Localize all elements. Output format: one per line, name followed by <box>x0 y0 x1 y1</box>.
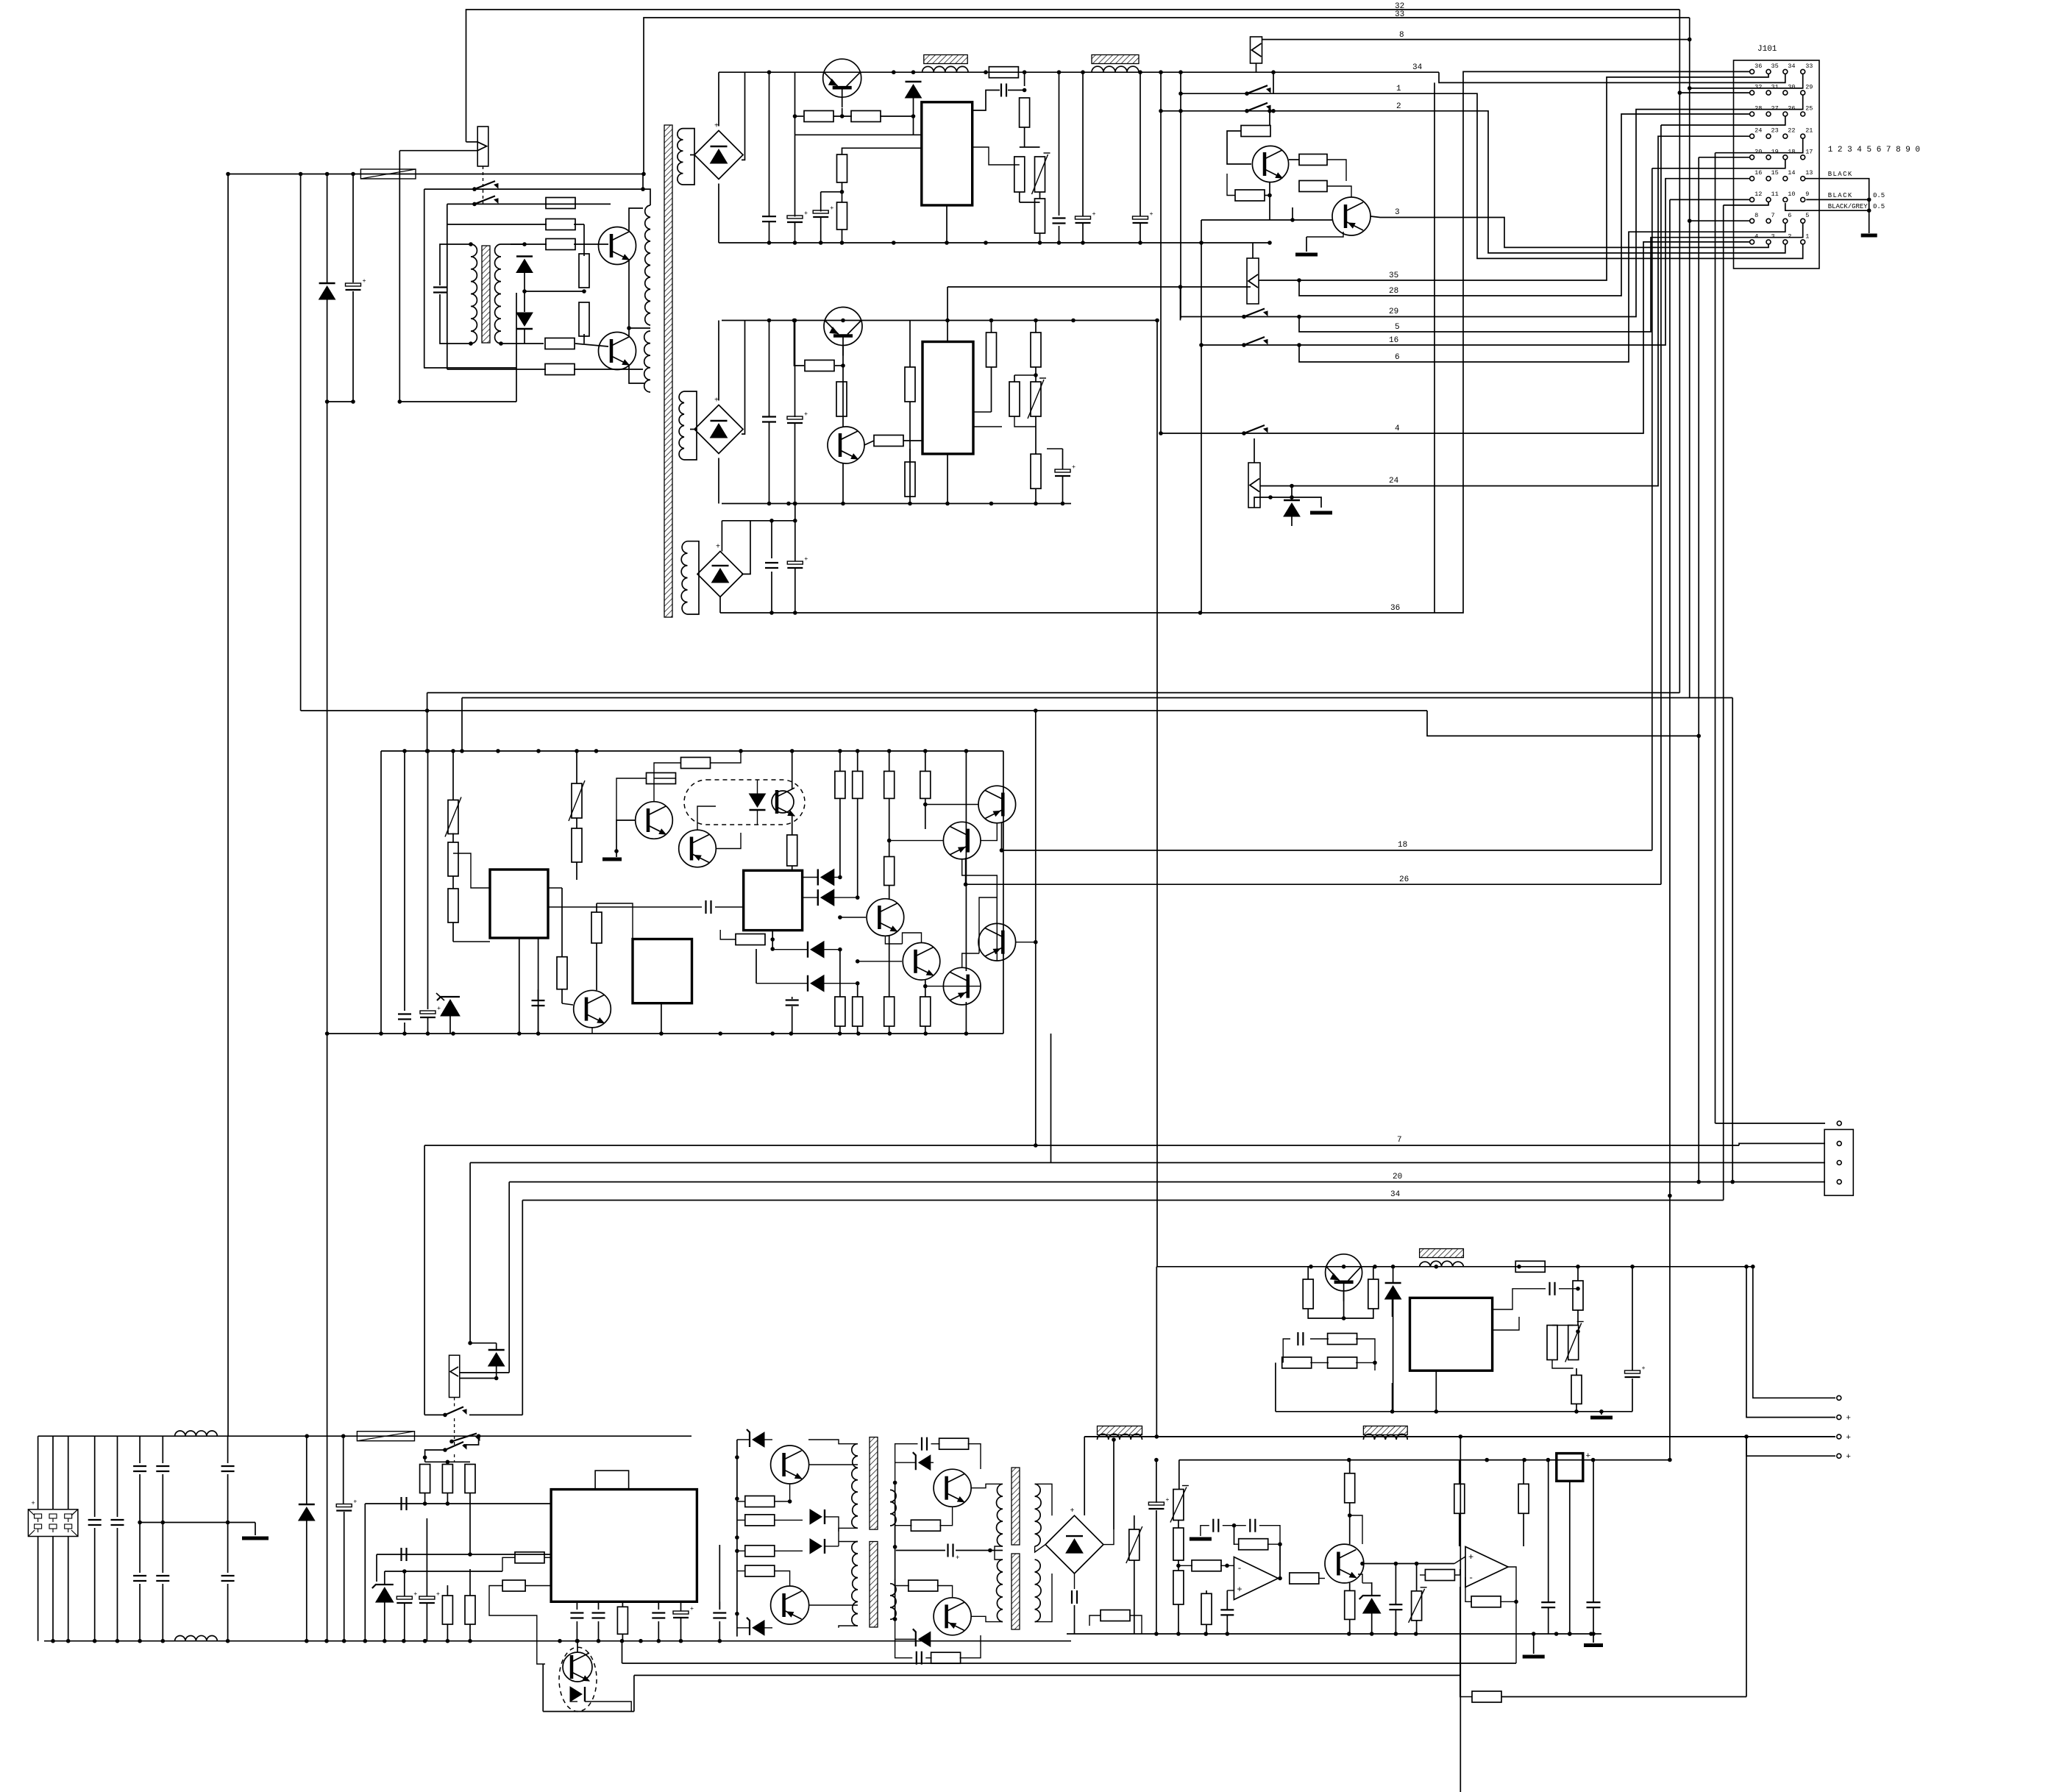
svg-text:+: + <box>956 1554 959 1562</box>
svg-text:+: + <box>363 277 366 285</box>
svg-text:11: 11 <box>1771 191 1779 198</box>
svg-text:36: 36 <box>1390 604 1400 613</box>
svg-text:+: + <box>1846 1415 1851 1423</box>
svg-text:4: 4 <box>1755 232 1758 240</box>
svg-text:34: 34 <box>1788 63 1795 70</box>
svg-text:12: 12 <box>1755 191 1762 198</box>
svg-text:10: 10 <box>1788 191 1795 198</box>
svg-text:+: + <box>1165 1496 1169 1504</box>
svg-text:8: 8 <box>1399 31 1404 40</box>
svg-text:0.5: 0.5 <box>1873 203 1885 210</box>
svg-text:+: + <box>714 123 719 131</box>
svg-text:17: 17 <box>1805 148 1813 155</box>
svg-text:28: 28 <box>1755 105 1762 113</box>
svg-text:19: 19 <box>1771 148 1779 155</box>
svg-text:1 2 3 4 5 6 7 8 9 0: 1 2 3 4 5 6 7 8 9 0 <box>1828 146 1920 154</box>
svg-text:24: 24 <box>1389 477 1399 486</box>
svg-text:6: 6 <box>1788 212 1791 219</box>
svg-text:18: 18 <box>1788 148 1795 155</box>
svg-text:-: - <box>1468 1573 1473 1583</box>
svg-text:4: 4 <box>1395 424 1400 433</box>
svg-text:15: 15 <box>1771 169 1779 177</box>
svg-text:7: 7 <box>1771 212 1775 219</box>
svg-text:+: + <box>690 1605 694 1613</box>
svg-text:33: 33 <box>1395 10 1404 19</box>
svg-text:+: + <box>716 543 720 551</box>
svg-text:0.5: 0.5 <box>1873 192 1885 199</box>
svg-text:+: + <box>31 1500 35 1507</box>
svg-text:16: 16 <box>1389 336 1398 345</box>
svg-text:+: + <box>1468 1552 1473 1562</box>
svg-text:24: 24 <box>1755 127 1762 135</box>
svg-text:20: 20 <box>1393 1173 1402 1181</box>
svg-text:36: 36 <box>1755 63 1762 70</box>
svg-text:BLACK/GREY: BLACK/GREY <box>1828 203 1869 210</box>
svg-text:+: + <box>1586 1452 1591 1461</box>
svg-text:+: + <box>413 1590 417 1598</box>
svg-text:+: + <box>1846 1453 1851 1462</box>
svg-text:-: - <box>1237 1563 1242 1574</box>
svg-text:+: + <box>1237 1585 1242 1595</box>
svg-text:2: 2 <box>1396 102 1401 111</box>
svg-text:32: 32 <box>1755 84 1762 91</box>
svg-text:1: 1 <box>1805 232 1809 240</box>
svg-text:+: + <box>1846 1434 1851 1443</box>
svg-text:+: + <box>353 1498 357 1506</box>
svg-text:5: 5 <box>1395 323 1400 332</box>
svg-text:35: 35 <box>1771 63 1779 70</box>
svg-text:18: 18 <box>1398 841 1407 850</box>
svg-text:+: + <box>830 205 833 212</box>
svg-text:9: 9 <box>1805 191 1809 198</box>
svg-text:25: 25 <box>1805 105 1813 113</box>
svg-text:14: 14 <box>1788 169 1795 177</box>
svg-text:35: 35 <box>1389 271 1398 280</box>
svg-text:34: 34 <box>1412 63 1423 72</box>
svg-text:29: 29 <box>1805 84 1813 91</box>
svg-text:8: 8 <box>1755 212 1758 219</box>
svg-text:+: + <box>437 1005 441 1012</box>
svg-text:23: 23 <box>1771 127 1779 135</box>
svg-text:13: 13 <box>1805 169 1813 177</box>
svg-text:3: 3 <box>1395 208 1400 217</box>
svg-text:+: + <box>804 410 808 418</box>
svg-text:1: 1 <box>1396 85 1401 93</box>
svg-text:2: 2 <box>1788 232 1791 240</box>
svg-text:+: + <box>804 555 808 563</box>
svg-text:7: 7 <box>1397 1136 1402 1145</box>
svg-text:28: 28 <box>1389 287 1398 296</box>
svg-text:+: + <box>1642 1365 1646 1372</box>
svg-text:31: 31 <box>1771 84 1779 91</box>
svg-text:+: + <box>1072 463 1076 471</box>
svg-text:5: 5 <box>1805 212 1809 219</box>
svg-text:BLACK: BLACK <box>1828 192 1853 199</box>
svg-text:+: + <box>1150 210 1153 218</box>
svg-text:33: 33 <box>1805 63 1813 70</box>
svg-text:6: 6 <box>1395 353 1400 362</box>
svg-text:29: 29 <box>1389 307 1398 316</box>
svg-text:+: + <box>436 1590 440 1598</box>
svg-text:+: + <box>1092 210 1096 218</box>
svg-text:21: 21 <box>1805 127 1813 135</box>
svg-text:+: + <box>804 210 808 217</box>
svg-text:22: 22 <box>1788 127 1795 135</box>
svg-text:26: 26 <box>1788 105 1795 113</box>
svg-text:20: 20 <box>1755 148 1762 155</box>
svg-text:3: 3 <box>1771 232 1775 240</box>
svg-text:J101: J101 <box>1757 45 1777 54</box>
svg-text:+: + <box>1070 1507 1075 1515</box>
svg-text:27: 27 <box>1771 105 1779 113</box>
svg-text:+: + <box>714 397 719 405</box>
svg-text:BLACK: BLACK <box>1828 171 1853 178</box>
svg-text:26: 26 <box>1399 875 1409 884</box>
svg-text:34: 34 <box>1390 1190 1401 1199</box>
svg-text:30: 30 <box>1788 84 1795 91</box>
svg-text:16: 16 <box>1755 169 1762 177</box>
